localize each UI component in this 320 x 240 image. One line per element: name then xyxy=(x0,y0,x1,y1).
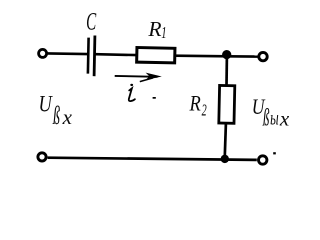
svg-text:2: 2 xyxy=(202,102,207,120)
wire top: R1 to junction xyxy=(175,54,228,57)
junction node top xyxy=(222,50,231,59)
terminal input top-left xyxy=(39,49,47,57)
terminal input bottom-left xyxy=(38,153,46,161)
svg-text:ß: ß xyxy=(52,101,60,131)
speck near bottom-right terminal xyxy=(273,152,276,154)
svg-text:х: х xyxy=(279,107,290,131)
label U_vyx xyxy=(252,95,290,131)
svg-text:ы: ы xyxy=(270,107,279,130)
terminal output top-right xyxy=(259,52,267,60)
wire: R2 down to bottom junction xyxy=(225,124,226,160)
wire top: capacitor to R1 xyxy=(96,53,138,56)
svg-text:R: R xyxy=(189,92,202,116)
svg-text:U: U xyxy=(39,91,54,118)
svg-text:1: 1 xyxy=(161,25,166,43)
svg-text:R: R xyxy=(147,17,161,41)
svg-text:C: C xyxy=(86,9,96,36)
current arrow i xyxy=(115,73,162,82)
terminal output bottom-right xyxy=(259,156,267,164)
resistor R1 xyxy=(137,48,175,63)
wire top: junction to output terminal xyxy=(227,55,258,58)
label R2 xyxy=(189,92,207,120)
wire bottom xyxy=(48,158,257,160)
resistor R2 xyxy=(219,85,235,123)
label U_vx xyxy=(39,91,73,131)
wire: junction down to R2 xyxy=(225,56,228,86)
junction node bottom xyxy=(221,155,229,163)
wire top: terminal to capacitor xyxy=(47,52,88,55)
label i xyxy=(129,84,135,101)
capacitor C plates xyxy=(88,36,95,77)
svg-text:х: х xyxy=(62,105,73,129)
label R1 xyxy=(147,17,166,43)
speck near i xyxy=(153,97,156,99)
svg-text:ß: ß xyxy=(262,104,269,131)
